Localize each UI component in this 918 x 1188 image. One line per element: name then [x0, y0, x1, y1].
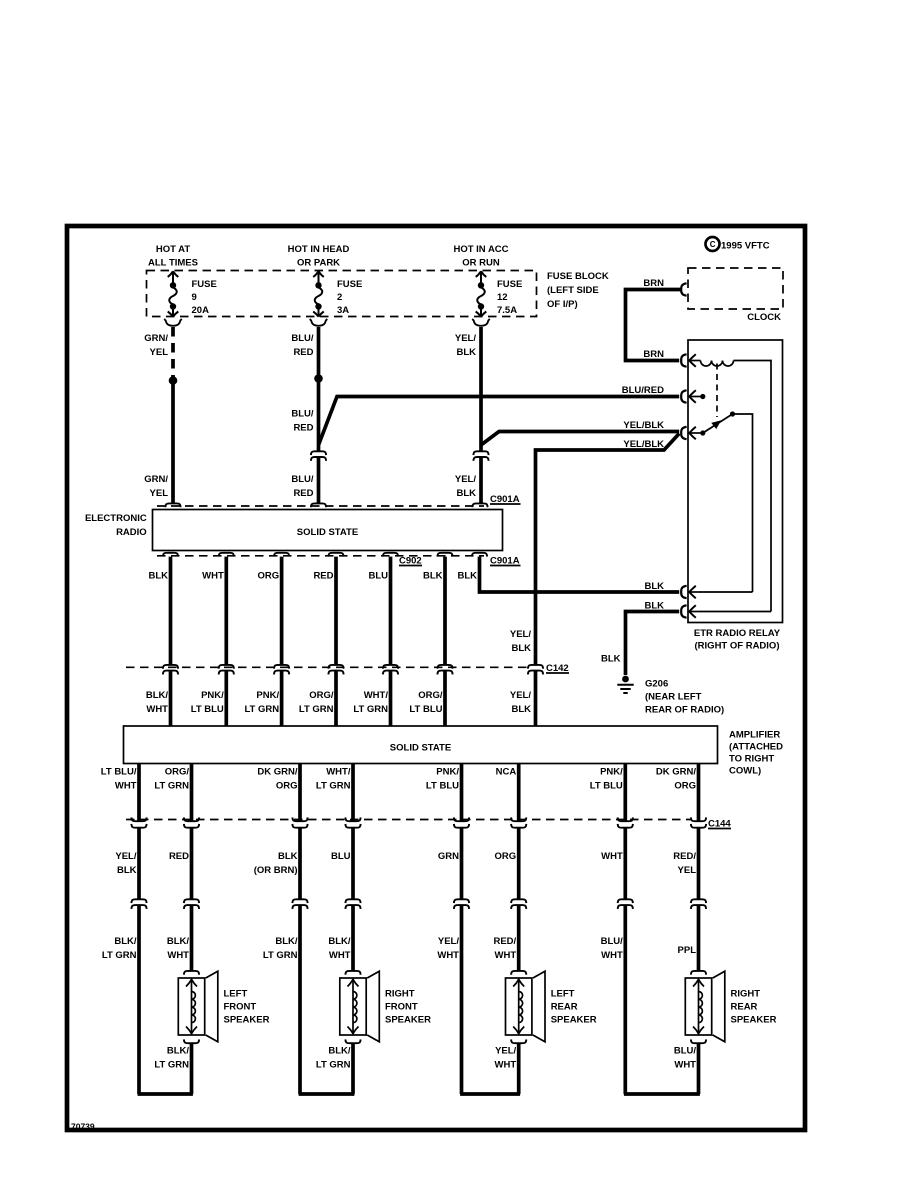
wire BLU/RED branch to relay: [319, 385, 680, 445]
svg-text:HOT IN HEAD: HOT IN HEAD: [288, 244, 350, 255]
svg-text:2: 2: [337, 292, 342, 303]
inline connector col 5: [454, 899, 469, 909]
wire GRN/YEL from fuse 9 to radio: [144, 327, 173, 503]
svg-text:YEL/: YEL/: [455, 474, 476, 485]
svg-text:PNK/: PNK/: [600, 767, 623, 778]
svg-text:FUSE BLOCK: FUSE BLOCK: [547, 271, 609, 282]
svg-text:G206: G206: [645, 679, 668, 690]
svg-text:YEL/: YEL/: [438, 936, 459, 947]
wire BLK ground to relay: [601, 601, 679, 676]
fuse 9 20A: [168, 271, 217, 316]
wire DK GRN/ORG amplifier pin 8 to C144: [656, 764, 699, 822]
svg-text:LT GRN: LT GRN: [353, 704, 388, 715]
svg-text:BLU/: BLU/: [291, 333, 314, 344]
fuse 12 7.5A: [476, 271, 523, 316]
svg-text:RED: RED: [293, 347, 313, 358]
wire YEL/BLK branch to relay: [481, 420, 679, 445]
inline connector on BLU/RED: [311, 451, 326, 461]
feed label HOT IN ACC OR RUN: [453, 244, 508, 269]
svg-text:LT GRN: LT GRN: [102, 950, 137, 961]
svg-text:LEFT: LEFT: [224, 989, 248, 1000]
svg-text:RED: RED: [313, 571, 333, 582]
svg-text:BLK: BLK: [601, 654, 621, 665]
svg-text:LT BLU: LT BLU: [409, 704, 442, 715]
svg-text:YEL/: YEL/: [455, 333, 476, 344]
feed label HOT IN HEAD OR PARK: [288, 244, 350, 269]
svg-text:BLK/: BLK/: [146, 690, 169, 701]
wire WHT/LT GRN amplifier pin 4 to C144: [316, 764, 353, 822]
svg-text:GRN/: GRN/: [144, 474, 168, 485]
svg-text:LT GRN: LT GRN: [154, 1060, 189, 1071]
splice on GRN/YEL: [169, 376, 178, 385]
svg-text:(RIGHT OF RADIO): (RIGHT OF RADIO): [695, 641, 780, 652]
svg-text:SPEAKER: SPEAKER: [224, 1015, 270, 1026]
connector below fuse 2: [310, 319, 328, 326]
wire speaker return loop 3: [460, 1092, 520, 1096]
inline connector col 8: [691, 899, 706, 909]
svg-text:C: C: [710, 240, 716, 249]
svg-text:RED/: RED/: [673, 851, 696, 862]
wire ORG/LT GRN amplifier pin 2 to C144: [154, 764, 191, 822]
svg-text:WHT: WHT: [674, 1060, 696, 1071]
svg-text:(LEFT SIDE: (LEFT SIDE: [547, 285, 599, 296]
svg-text:LEFT: LEFT: [551, 989, 575, 1000]
wire BLU below C144 col 4: [331, 828, 353, 899]
svg-text:BLK: BLK: [278, 851, 298, 862]
wire NCA amplifier pin 6 to C144: [496, 764, 519, 822]
copyright 1995 VFTC: [706, 237, 770, 252]
wire YEL/BLK from fuse 12 to radio: [455, 327, 481, 503]
svg-text:DK GRN/: DK GRN/: [656, 767, 696, 778]
svg-text:SOLID STATE: SOLID STATE: [297, 527, 358, 538]
wire YEL/WHT to speaker col 5: [437, 905, 461, 1095]
svg-text:LT BLU: LT BLU: [426, 781, 459, 792]
inline connector col 1: [131, 899, 146, 909]
svg-text:PNK/: PNK/: [436, 767, 459, 778]
svg-text:BLK/: BLK/: [328, 1046, 351, 1057]
connector C901A (radio top): [157, 494, 521, 507]
svg-text:GRN/: GRN/: [144, 333, 168, 344]
svg-text:WHT: WHT: [495, 1060, 517, 1071]
wire RED below C144 col 2: [169, 828, 192, 899]
svg-text:SPEAKER: SPEAKER: [551, 1015, 597, 1026]
ETR radio relay box: [688, 340, 783, 652]
svg-text:BLU/RED: BLU/RED: [622, 385, 664, 396]
left front speaker: [178, 971, 269, 1043]
wire WHT radio pin 2 to C142: [202, 557, 226, 665]
svg-text:BLU: BLU: [368, 571, 388, 582]
svg-text:CLOCK: CLOCK: [747, 312, 781, 323]
svg-text:ALL TIMES: ALL TIMES: [148, 258, 198, 269]
svg-text:9: 9: [192, 292, 197, 303]
wire ORG/LT BLU C142 to amplifier: [409, 670, 445, 726]
svg-text:RIGHT: RIGHT: [731, 989, 761, 1000]
svg-text:WHT: WHT: [495, 950, 517, 961]
svg-text:PNK/: PNK/: [201, 690, 224, 701]
svg-text:(ATTACHED: (ATTACHED: [729, 742, 783, 753]
inline connector col 6: [511, 899, 526, 909]
svg-text:BLU/: BLU/: [291, 474, 314, 485]
inline connector col 7: [618, 899, 633, 909]
svg-text:WHT: WHT: [329, 950, 351, 961]
svg-text:70739: 70739: [71, 1122, 95, 1132]
svg-text:BLK: BLK: [148, 571, 168, 582]
svg-text:ORG/: ORG/: [418, 690, 443, 701]
svg-text:BLK/: BLK/: [275, 936, 298, 947]
svg-text:BLK: BLK: [456, 347, 476, 358]
svg-text:LT GRN: LT GRN: [263, 950, 298, 961]
svg-text:BLK/: BLK/: [167, 1046, 190, 1057]
wire WHT below C144 col 7: [601, 828, 625, 899]
svg-text:FRONT: FRONT: [385, 1002, 418, 1013]
svg-text:ORG/: ORG/: [165, 767, 190, 778]
svg-text:WHT: WHT: [115, 781, 137, 792]
wire BLK/WHT to speaker col 2: [167, 905, 192, 971]
wire RED/WHT to speaker col 6: [493, 905, 518, 971]
svg-text:GRN: GRN: [438, 851, 459, 862]
wire PNK/LT BLU amplifier pin 7 to C144: [590, 764, 626, 822]
wire PNK/LT BLU C142 to amplifier: [191, 670, 227, 726]
svg-text:BLK/: BLK/: [114, 936, 137, 947]
svg-text:SPEAKER: SPEAKER: [385, 1015, 431, 1026]
svg-text:ELECTRONIC: ELECTRONIC: [85, 513, 147, 524]
svg-text:ORG: ORG: [276, 781, 298, 792]
svg-text:BLU: BLU: [331, 851, 351, 862]
wire WHT/LT GRN C142 to amplifier: [353, 670, 390, 726]
wire ORG/LT GRN C142 to amplifier: [299, 670, 336, 726]
fuse 2 3A: [313, 271, 362, 316]
wire BLK/WHT C142 to amplifier: [146, 670, 171, 726]
svg-text:20A: 20A: [192, 305, 210, 316]
svg-text:SPEAKER: SPEAKER: [731, 1015, 777, 1026]
wire BLK/LT GRN to speaker col 1: [102, 905, 139, 1095]
svg-text:RIGHT: RIGHT: [385, 989, 415, 1000]
svg-text:BLU/: BLU/: [601, 936, 624, 947]
wire BLK/WHT to speaker col 4: [328, 905, 353, 971]
inline connector col 3: [292, 899, 307, 909]
wire BLK/LT GRN to speaker col 3: [263, 905, 300, 1095]
svg-text:LT BLU: LT BLU: [590, 781, 623, 792]
clock connector: [681, 283, 686, 295]
relay pin BLK (switch output): [681, 586, 752, 599]
svg-text:DK GRN/: DK GRN/: [257, 767, 297, 778]
svg-text:REAR: REAR: [551, 1002, 578, 1013]
svg-text:FUSE: FUSE: [497, 279, 522, 290]
wire PPL to speaker col 8: [678, 905, 699, 971]
svg-text:YEL/BLK: YEL/BLK: [623, 420, 664, 431]
svg-text:RADIO: RADIO: [116, 527, 147, 538]
svg-text:(NEAR LEFT: (NEAR LEFT: [645, 692, 702, 703]
svg-text:YEL/: YEL/: [495, 1046, 516, 1057]
ground G206: [617, 676, 724, 716]
wire BLK radio pin 1 to C142: [148, 557, 170, 665]
wire PNK/LT BLU amplifier pin 5 to C144: [426, 764, 462, 822]
svg-text:YEL: YEL: [150, 488, 169, 499]
svg-text:LT GRN: LT GRN: [316, 1060, 351, 1071]
connector C142: [126, 663, 569, 674]
svg-text:OR RUN: OR RUN: [462, 258, 500, 269]
wire BLU radio pin 5 to C142: [368, 557, 390, 665]
svg-text:ORG: ORG: [674, 781, 696, 792]
svg-text:WHT/: WHT/: [326, 767, 351, 778]
svg-text:WHT: WHT: [202, 571, 224, 582]
relay pin BRN (coil input): [681, 354, 700, 367]
relay coil-to-switch dashed link: [716, 364, 718, 418]
svg-text:ETR RADIO RELAY: ETR RADIO RELAY: [694, 628, 781, 639]
svg-text:LT GRN: LT GRN: [154, 781, 189, 792]
electronic radio box (solid state): [85, 510, 503, 551]
inline connector on YEL/BLK: [473, 451, 488, 461]
svg-text:BLK/: BLK/: [167, 936, 190, 947]
sheet number 70739: [71, 1122, 95, 1132]
wire GRN below C144 col 5: [438, 828, 462, 899]
wire RED/YEL below C144 col 8: [673, 828, 698, 899]
wire DK GRN/ORG amplifier pin 3 to C144: [257, 764, 300, 822]
wire speaker return loop 1: [138, 1092, 193, 1096]
svg-text:LT GRN: LT GRN: [316, 781, 351, 792]
svg-text:FUSE: FUSE: [192, 279, 217, 290]
svg-text:YEL/: YEL/: [510, 629, 531, 640]
right front speaker: [340, 971, 431, 1043]
svg-text:TO RIGHT: TO RIGHT: [729, 754, 774, 765]
left rear speaker: [506, 971, 597, 1043]
svg-text:BLU/: BLU/: [291, 409, 314, 420]
svg-text:LT GRN: LT GRN: [244, 704, 279, 715]
feed label HOT AT ALL TIMES: [148, 244, 198, 269]
svg-text:BRN: BRN: [643, 278, 664, 289]
relay switch blade: [703, 411, 753, 592]
connector below fuse 12: [472, 319, 490, 326]
connector C144: [126, 817, 731, 829]
wire LT BLU/WHT amplifier pin 1 to C144: [101, 764, 139, 822]
svg-text:BLK/: BLK/: [328, 936, 351, 947]
svg-text:RED: RED: [293, 488, 313, 499]
svg-text:(OR BRN): (OR BRN): [254, 865, 298, 876]
svg-text:LT BLU: LT BLU: [191, 704, 224, 715]
svg-text:RED: RED: [293, 423, 313, 434]
svg-text:FUSE: FUSE: [337, 279, 362, 290]
svg-text:HOT AT: HOT AT: [156, 244, 190, 255]
svg-text:3A: 3A: [337, 305, 349, 316]
svg-text:YEL/: YEL/: [510, 690, 531, 701]
svg-text:WHT: WHT: [167, 950, 189, 961]
svg-text:1995 VFTC: 1995 VFTC: [721, 241, 770, 252]
wire ORG radio pin 3 to C142: [257, 557, 281, 665]
svg-text:COWL): COWL): [729, 766, 761, 777]
right rear speaker: [685, 971, 776, 1043]
svg-text:YEL/: YEL/: [115, 851, 136, 862]
svg-text:OR PARK: OR PARK: [297, 258, 340, 269]
svg-text:ORG: ORG: [495, 851, 517, 862]
wire BLK radio pin 7 to relay: [457, 557, 679, 592]
splice on BLU/RED: [314, 374, 323, 383]
amplifier box (solid state): [124, 726, 784, 777]
svg-text:BLK: BLK: [456, 488, 476, 499]
svg-text:BLK: BLK: [644, 601, 664, 612]
svg-text:WHT: WHT: [437, 950, 459, 961]
svg-text:LT GRN: LT GRN: [299, 704, 334, 715]
wire YEL/BLK below C144 col 1: [115, 828, 139, 899]
relay pin YEL/BLK (switch common): [681, 427, 705, 440]
svg-text:FRONT: FRONT: [224, 1002, 257, 1013]
svg-text:BLK: BLK: [117, 865, 137, 876]
clock box: [688, 268, 783, 323]
wire RED radio pin 4 to C142: [313, 557, 336, 665]
svg-text:REAR OF RADIO): REAR OF RADIO): [645, 705, 724, 716]
svg-text:NCA: NCA: [496, 767, 517, 778]
svg-text:AMPLIFIER: AMPLIFIER: [729, 730, 780, 741]
wire ORG below C144 col 6: [495, 828, 519, 899]
svg-text:BLU/: BLU/: [674, 1046, 697, 1057]
wire BLU/RED from fuse 2 to radio: [291, 327, 318, 503]
svg-text:WHT: WHT: [601, 950, 623, 961]
svg-text:YEL: YEL: [150, 347, 169, 358]
wire speaker return loop 4: [624, 1092, 700, 1096]
wire BLK(OR BRN) below C144 col 3: [254, 828, 300, 899]
wire YEL/BLK from relay to amplifier: [510, 434, 679, 727]
fuse block (left side of I/P): [147, 271, 609, 317]
wire BLU/WHT to speaker col 7: [601, 905, 626, 1095]
relay pin BLK (coil return): [681, 605, 771, 618]
svg-text:BRN: BRN: [643, 349, 664, 360]
wire speaker return loop 2: [299, 1092, 355, 1096]
svg-text:WHT: WHT: [601, 851, 623, 862]
svg-text:YEL: YEL: [678, 865, 697, 876]
wire BLK/LT GRN speaker return: [154, 1044, 191, 1094]
svg-text:12: 12: [497, 292, 508, 303]
connector C902 / C901A (radio bottom): [157, 553, 521, 567]
wire BLU/WHT speaker return: [674, 1044, 699, 1094]
wire BLK/LT GRN speaker return: [316, 1044, 353, 1094]
wire BLK radio pin 6 to C142: [423, 557, 445, 665]
svg-text:HOT IN ACC: HOT IN ACC: [453, 244, 508, 255]
svg-text:PNK/: PNK/: [256, 690, 279, 701]
svg-text:WHT/: WHT/: [364, 690, 389, 701]
wire BRN clock to relay coil: [626, 278, 682, 361]
svg-text:REAR: REAR: [731, 1002, 758, 1013]
svg-text:LT BLU/: LT BLU/: [101, 767, 137, 778]
svg-text:RED: RED: [169, 851, 189, 862]
wire YEL/WHT speaker return: [495, 1044, 519, 1094]
inline connector col 2: [184, 899, 199, 909]
svg-text:BLK: BLK: [457, 571, 477, 582]
svg-text:BLK: BLK: [423, 571, 443, 582]
inline connector col 4: [345, 899, 360, 909]
svg-text:ORG/: ORG/: [309, 690, 334, 701]
svg-text:ORG: ORG: [257, 571, 279, 582]
svg-text:SOLID STATE: SOLID STATE: [390, 743, 451, 754]
svg-text:WHT: WHT: [146, 704, 168, 715]
svg-text:YEL/BLK: YEL/BLK: [623, 439, 664, 450]
svg-text:PPL: PPL: [678, 945, 697, 956]
svg-text:BLK: BLK: [644, 581, 664, 592]
svg-text:BLK: BLK: [511, 643, 531, 654]
wire PNK/LT GRN C142 to amplifier: [244, 670, 281, 726]
relay pin BLU/RED: [681, 390, 705, 403]
svg-text:OF I/P): OF I/P): [547, 299, 578, 310]
svg-text:7.5A: 7.5A: [497, 305, 517, 316]
relay coil: [701, 361, 772, 612]
connector below fuse 9: [164, 319, 182, 326]
svg-text:RED/: RED/: [493, 936, 516, 947]
svg-text:BLK: BLK: [511, 704, 531, 715]
